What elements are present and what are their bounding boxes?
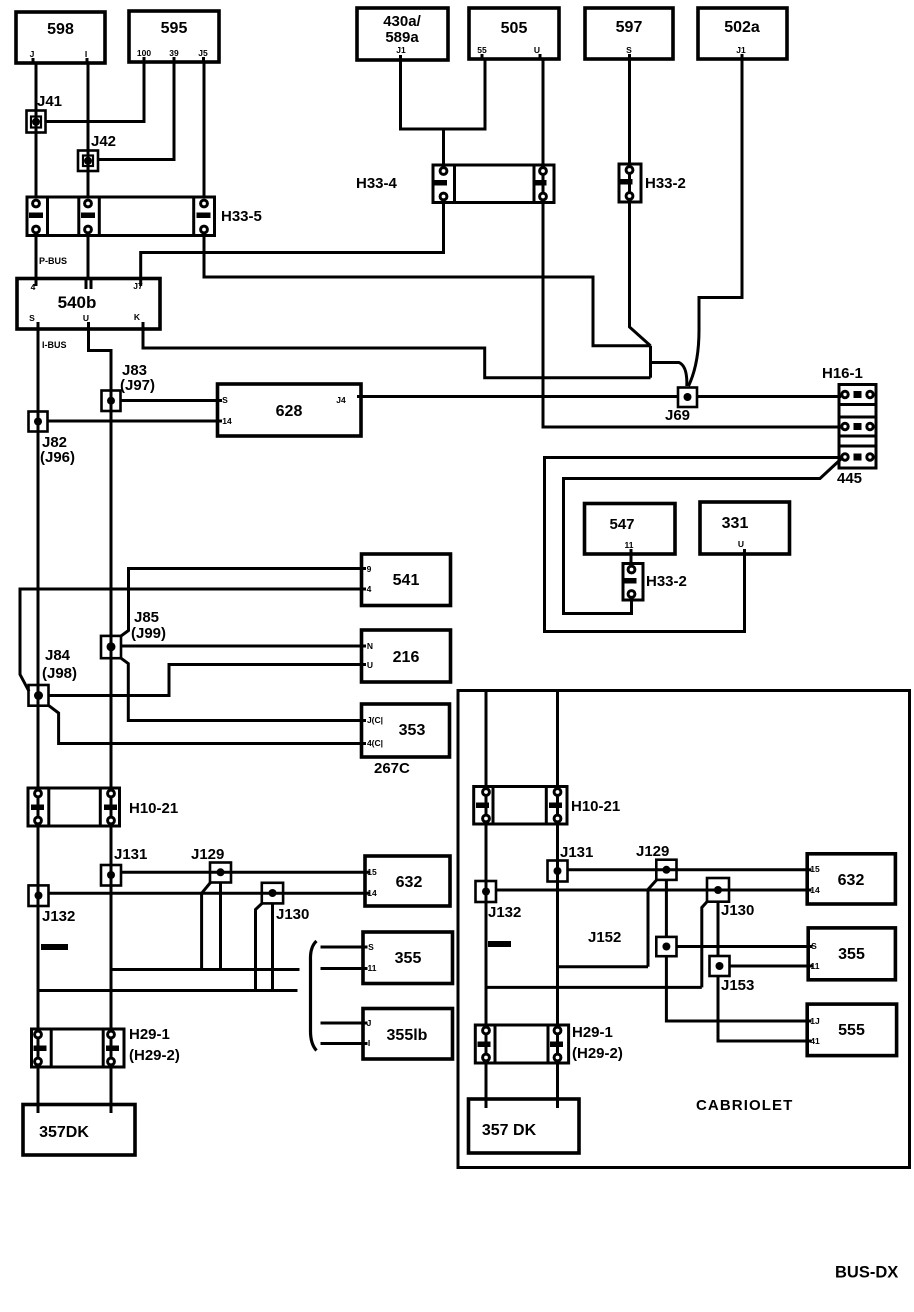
wire 598 pin I to J42 to H33-5 cell2 <box>87 63 90 197</box>
wire 541 pin2 to J84 left <box>20 589 362 691</box>
svg-text:14: 14 <box>810 885 820 895</box>
box 632 <box>365 856 450 906</box>
wire junction lead-in to J69 top <box>651 363 687 387</box>
connector J82 (J96) <box>29 412 48 432</box>
wire 595 pin 39 to J42 <box>98 62 174 160</box>
wire 353 pin2 to J84 bottom <box>49 706 362 744</box>
wire 502a down-left-curve into J69 <box>689 59 743 386</box>
wire J131 to 632 pin 15 <box>121 871 365 874</box>
connector cab J131 <box>548 861 568 882</box>
svg-text:632: 632 <box>396 874 423 891</box>
svg-text:445: 445 <box>837 470 862 487</box>
svg-text:598: 598 <box>47 21 74 38</box>
wire 216 pin1 to J85 right <box>121 645 362 648</box>
svg-text:540b: 540b <box>58 293 97 312</box>
wire junction down to H33-4 left cell <box>442 129 445 165</box>
wire 597 pin S through H33-2 down with diagonal to junction <box>630 59 651 346</box>
box 555 <box>807 1004 896 1056</box>
label H29-1 (H29-2) <box>129 1026 180 1064</box>
connector H33-5 <box>27 197 215 236</box>
svg-text:J129: J129 <box>636 843 669 860</box>
svg-text:J132: J132 <box>42 908 75 925</box>
svg-text:628: 628 <box>276 403 303 420</box>
svg-text:4(C|: 4(C| <box>367 738 383 748</box>
box 547 <box>585 504 676 555</box>
connector J69 <box>678 388 697 408</box>
wire cab left bus <box>485 692 488 1099</box>
connector cab H10-21 <box>474 787 567 825</box>
svg-text:4: 4 <box>367 584 372 594</box>
wire line A from right bus stub <box>111 968 300 971</box>
svg-text:BUS-DX: BUS-DX <box>835 1264 898 1282</box>
svg-text:H10-21: H10-21 <box>129 800 178 817</box>
svg-text:I: I <box>368 1038 370 1048</box>
svg-text:14: 14 <box>367 888 377 898</box>
box 597 <box>585 8 673 59</box>
svg-text:H33-4: H33-4 <box>356 175 398 192</box>
wire junction vertical at J69 <box>649 346 652 378</box>
svg-text:547: 547 <box>609 516 634 533</box>
svg-text:1J: 1J <box>810 1016 820 1026</box>
svg-text:S: S <box>368 942 374 952</box>
svg-text:(J96): (J96) <box>40 449 75 466</box>
wire H33-5 cell2 to 540b <box>87 236 90 279</box>
label J82 (J96) <box>40 434 75 466</box>
label J83 (J97) <box>120 362 155 394</box>
svg-text:U: U <box>83 313 89 323</box>
svg-text:I-BUS: I-BUS <box>42 340 67 350</box>
svg-text:595: 595 <box>161 20 188 37</box>
wire cab J132 to 632 pin 14 <box>496 889 807 892</box>
svg-text:J41: J41 <box>37 93 62 110</box>
svg-text:J: J <box>30 49 35 59</box>
wire cab J130 center to J153 to 555 pin2 <box>718 902 807 1041</box>
svg-text:331: 331 <box>722 515 749 532</box>
box 357DK <box>23 1105 135 1156</box>
wire 505 pin 55 to H33-4 junction <box>444 59 486 129</box>
wire cab J130 diagonal to line B' <box>702 902 707 988</box>
wire brace stub to 355 pin 11 <box>321 967 364 970</box>
box cab 357DK <box>469 1099 580 1153</box>
svg-text:355: 355 <box>395 950 422 967</box>
svg-text:J: J <box>367 1018 372 1028</box>
svg-text:505: 505 <box>501 20 528 37</box>
box 595 <box>129 11 219 62</box>
svg-text:J69: J69 <box>665 407 690 424</box>
wire J129 center drop to line A <box>219 883 222 970</box>
wire 430a/589a down to H33-4 junction <box>401 60 444 129</box>
wire brace stub to 355 pin S <box>321 946 364 949</box>
svg-text:S: S <box>811 941 817 951</box>
svg-text:11: 11 <box>811 961 820 971</box>
box cab 355 <box>808 928 895 980</box>
svg-text:55: 55 <box>477 45 487 55</box>
svg-text:632: 632 <box>838 872 865 889</box>
svg-text:J5: J5 <box>198 48 208 58</box>
connector J153 <box>710 956 730 976</box>
wire H33-5 cell1 to 540b <box>35 236 38 279</box>
svg-text:267C: 267C <box>374 760 410 777</box>
svg-text:(J97): (J97) <box>120 377 155 394</box>
svg-text:K: K <box>134 312 141 322</box>
svg-text:J(C|: J(C| <box>367 715 383 725</box>
svg-text:P-BUS: P-BUS <box>39 256 67 266</box>
svg-text:J4: J4 <box>336 395 346 405</box>
svg-text:353: 353 <box>399 722 426 739</box>
box 355 <box>363 932 453 984</box>
svg-text:H29-1: H29-1 <box>129 1026 170 1043</box>
wire J132 to 632 pin 14 <box>49 892 366 895</box>
wire J82 to 628 pin 14 <box>48 420 218 423</box>
wire J130 center drop to line B <box>271 903 274 990</box>
svg-text:I: I <box>85 49 87 59</box>
svg-text:S: S <box>29 313 35 323</box>
connector cab J129 <box>656 860 676 880</box>
wire line B from left bus stub <box>38 989 298 992</box>
svg-text:11: 11 <box>625 540 634 550</box>
wire main bus 628 J4 through J69 to H16-1 cell1 <box>361 395 841 398</box>
svg-text:J131: J131 <box>560 844 593 861</box>
svg-text:J132: J132 <box>488 904 521 921</box>
box texts <box>39 13 865 1141</box>
svg-text:11: 11 <box>368 963 377 973</box>
svg-text:39: 39 <box>169 48 179 58</box>
wire cab J131 to 632 pin 15 <box>568 868 808 871</box>
connector H33-2 bottom <box>623 564 643 601</box>
box 216 <box>362 630 451 682</box>
svg-text:J131: J131 <box>114 846 147 863</box>
svg-text:H29-1: H29-1 <box>572 1024 613 1041</box>
box 331 <box>700 502 790 554</box>
svg-text:J42: J42 <box>91 133 116 150</box>
wire left bus 540b S down to 357DK <box>37 329 40 1105</box>
wire 331 pin U loop to H16-1 cell3 <box>545 458 842 632</box>
svg-text:355lb: 355lb <box>387 1027 428 1044</box>
wire cab line A' from right bus <box>558 965 649 968</box>
connector J129 <box>210 863 231 883</box>
svg-text:357DK: 357DK <box>39 1124 89 1141</box>
svg-text:355: 355 <box>838 946 865 963</box>
wire cab J129 diagonal to line A' <box>648 880 657 967</box>
svg-text:597: 597 <box>616 19 643 36</box>
svg-text:J84: J84 <box>45 647 71 664</box>
svg-text:502a: 502a <box>724 19 760 36</box>
wire brace stub to 355lb pin1 <box>321 1022 364 1025</box>
svg-text:H16-1: H16-1 <box>822 365 863 382</box>
wire 540b pin K loop to J69 junction <box>143 329 651 378</box>
svg-text:CABRIOLET: CABRIOLET <box>696 1097 793 1114</box>
svg-text:4: 4 <box>31 282 36 292</box>
svg-text:U: U <box>738 539 744 549</box>
cabriolet frame <box>458 691 910 1168</box>
wire 547 to H33-2 bottom <box>630 554 633 564</box>
svg-text:U: U <box>367 660 373 670</box>
brace for 355/355lb <box>310 941 316 1051</box>
connector J83 (J97) <box>102 391 121 412</box>
connector J85 (J99) <box>101 636 121 658</box>
box cab 632 <box>807 854 895 904</box>
svg-text:S: S <box>626 45 632 55</box>
svg-text:216: 216 <box>393 649 420 666</box>
wire J83 to 628 pin S <box>121 399 218 402</box>
label J84 (J98) <box>42 647 77 682</box>
svg-text:H33-5: H33-5 <box>221 208 262 225</box>
svg-text:J153: J153 <box>721 977 754 994</box>
wire cab right bus <box>556 692 559 1099</box>
svg-text:15: 15 <box>810 864 820 874</box>
svg-text:15: 15 <box>367 867 377 877</box>
box 430a/589a <box>357 8 448 60</box>
wire H33-2 bottom loop to H16-1 cell3 diagonal <box>564 459 842 614</box>
wire J129 diagonal drop to line A <box>202 883 211 970</box>
connector cab J132 <box>476 881 497 902</box>
svg-text:541: 541 <box>393 572 420 589</box>
wire H33-5 cell3 right to J69 junction <box>204 236 651 346</box>
splice dash on left bus <box>41 944 68 950</box>
svg-text:J129: J129 <box>191 846 224 863</box>
label cab H29-1 (H29-2) <box>572 1024 623 1062</box>
svg-text:N: N <box>367 641 373 651</box>
wire H33-4 left cell down-left to 540b top pin <box>141 203 444 279</box>
svg-text:J1: J1 <box>736 45 746 55</box>
wire 595 pin 100 to J41 <box>46 62 144 122</box>
connector J131 <box>101 865 121 886</box>
connector H29-1 <box>32 1029 125 1067</box>
svg-text:H33-2: H33-2 <box>646 573 687 590</box>
box 502a <box>698 8 787 59</box>
connector J84 (J98) <box>29 685 49 706</box>
box 628 <box>218 384 362 436</box>
box 541 <box>362 554 451 606</box>
svg-text:357 DK: 357 DK <box>482 1122 537 1139</box>
wire J130 diagonal drop to line B <box>256 903 263 990</box>
splice dash on cab left bus <box>488 941 511 947</box>
connector H33-4 <box>433 165 554 203</box>
svg-text:S: S <box>222 395 228 405</box>
wire 505 pin U through H33-4 right cell down to H16-1 cell2 <box>543 59 841 427</box>
svg-text:14: 14 <box>222 416 232 426</box>
wire brace stub to 355lb pin2 <box>321 1042 364 1045</box>
svg-text:J7: J7 <box>133 281 143 291</box>
connector H33-2 top <box>619 164 641 202</box>
svg-text:U: U <box>534 45 540 55</box>
box 598 <box>16 12 105 63</box>
box 505 <box>469 8 559 59</box>
connector H10-21 <box>28 788 120 826</box>
svg-text:J85: J85 <box>134 609 159 626</box>
box 540b <box>17 279 160 330</box>
svg-text:100: 100 <box>137 48 151 58</box>
svg-text:(J99): (J99) <box>131 625 166 642</box>
svg-text:H33-2: H33-2 <box>645 175 686 192</box>
connector J41 <box>27 111 46 133</box>
box 355lb <box>363 1009 453 1060</box>
wire cab J129 center to J152 to 555 pin1 <box>666 880 807 1021</box>
svg-text:(J98): (J98) <box>42 665 77 682</box>
wire 595 pin J5 to H33-5 cell3 <box>203 62 206 197</box>
wire 540b U jog to right bus down to 357DK <box>89 329 112 1105</box>
connector J130 <box>262 883 283 904</box>
svg-text:430a/: 430a/ <box>383 13 421 30</box>
wire cab line B' from left bus <box>486 986 702 989</box>
connector cab H29-1 <box>475 1025 568 1063</box>
connector J132 <box>29 885 49 906</box>
label J85 (J99) <box>131 609 166 642</box>
connector J152 <box>656 937 676 956</box>
svg-text:J152: J152 <box>588 929 621 946</box>
svg-text:J1: J1 <box>396 45 406 55</box>
svg-text:(H29-2): (H29-2) <box>129 1047 180 1064</box>
svg-text:J130: J130 <box>276 906 309 923</box>
wire 541 pin1 via J85 to 353 pin1 <box>121 569 362 721</box>
svg-text:(H29-2): (H29-2) <box>572 1045 623 1062</box>
svg-text:555: 555 <box>838 1022 865 1039</box>
wire 216 pin2 to J84 right <box>49 665 362 696</box>
box 353 <box>362 704 450 757</box>
connector cab J130 <box>707 878 729 902</box>
svg-text:H10-21: H10-21 <box>571 798 620 815</box>
wire J152 to cab 355 pin S <box>677 945 809 948</box>
svg-text:41: 41 <box>810 1036 820 1046</box>
wire J153 to cab 355 pin 11 <box>730 965 809 968</box>
svg-text:589a: 589a <box>385 29 419 46</box>
connector J42 <box>78 151 98 172</box>
wire 598 pin J to J41 to H33-5 cell1 <box>35 63 38 197</box>
svg-text:J130: J130 <box>721 902 754 919</box>
connector H16-1 <box>839 385 876 469</box>
svg-text:9: 9 <box>367 564 372 574</box>
